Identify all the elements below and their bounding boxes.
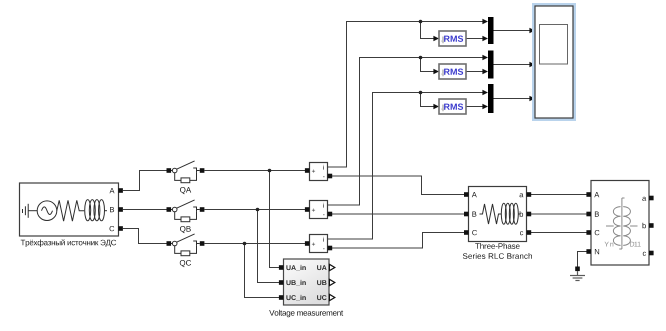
output chevron UC xyxy=(329,294,334,300)
output chevron UA xyxy=(329,264,334,270)
junction dots xyxy=(243,20,423,246)
winding config label D11 xyxy=(630,242,641,247)
breaker QB xyxy=(167,200,205,233)
pin label A (transformer) xyxy=(594,192,599,197)
current measurement I2 xyxy=(305,201,332,219)
pin label UC_in xyxy=(286,295,305,301)
pin label UC xyxy=(317,295,327,300)
mux M2 xyxy=(488,51,494,79)
wire branch line3 down to RMS3 input xyxy=(421,93,434,107)
label RMS1 xyxy=(444,36,463,42)
wire tap B down to UB_in xyxy=(258,210,279,283)
arrow line2 into mux M2 xyxy=(482,55,488,61)
arrow mux M1 into scope xyxy=(529,28,535,34)
pin label C (source) xyxy=(110,226,115,231)
pin label A (RLC) xyxy=(472,192,477,197)
pin mark + (I3) xyxy=(312,243,315,246)
arrow mux M2 into scope xyxy=(529,62,535,68)
wire source A to breaker QA xyxy=(123,171,167,191)
scope (selected, blue halo) xyxy=(532,3,576,121)
wire I1 i-output riser to top line 1 into mux M1 xyxy=(328,22,483,168)
pin label a (transformer) xyxy=(642,197,646,201)
pin label c (transformer) xyxy=(643,252,646,256)
pin label UA_in xyxy=(286,265,305,271)
source block Трёхфазный источник ЭДС xyxy=(20,183,119,236)
pin mark + (I2) xyxy=(312,209,315,212)
wire transformer N to ground xyxy=(578,252,587,267)
pin mark i (I2) xyxy=(322,203,325,208)
node tap A xyxy=(268,169,272,173)
wire branch line2 down to RMS2 input xyxy=(421,58,434,72)
designator label QA xyxy=(180,187,191,194)
output chevron UB xyxy=(329,279,334,285)
node line3-RMS3 branch xyxy=(419,91,423,95)
breaker QA xyxy=(167,161,205,194)
pin label c (RLC) xyxy=(520,231,523,235)
pin label N (transformer) xyxy=(595,249,599,254)
wire RLC c to transformer C xyxy=(531,232,586,234)
Voltage measurement subsystem xyxy=(279,259,335,305)
pin label UA xyxy=(317,265,327,270)
pin mark + (I1) xyxy=(312,170,315,173)
transformer icon: two windings and core xyxy=(606,198,638,249)
pin mark i (I3) xyxy=(322,237,325,242)
ground xyxy=(570,267,585,281)
node tap B xyxy=(256,208,260,212)
label Voltage measurement xyxy=(269,310,343,318)
arrow into RMS3 xyxy=(433,104,439,110)
wire mux M2 to scope input 2 xyxy=(494,64,530,66)
pin label UB xyxy=(317,280,326,285)
pin label A (source) xyxy=(110,188,115,193)
arrowheads xyxy=(433,19,535,110)
pin label UB_in xyxy=(286,280,305,286)
wire I3 minus to RLC port C xyxy=(332,233,464,249)
pin mark - (I1) xyxy=(323,176,325,179)
designator label QC xyxy=(180,260,191,267)
pin mark - (I3) xyxy=(323,248,325,251)
pin label B (transformer) xyxy=(595,212,599,217)
arrow RMS1 into mux M1 xyxy=(482,36,488,42)
label source block xyxy=(21,239,117,247)
wire I2 i-output riser to top line 2 into mux M2 xyxy=(328,58,483,206)
wire tap A down to UA_in xyxy=(270,171,279,268)
arrow into RMS2 xyxy=(433,69,439,75)
pin label B (RLC) xyxy=(472,212,476,217)
node line2-RMS2 branch xyxy=(419,56,423,60)
wire I3 i-output riser to top line 3 into mux M3 xyxy=(328,93,483,240)
pin label b (RLC) xyxy=(520,211,523,217)
RMS3 block xyxy=(439,99,466,114)
arrow line1 into mux M1 xyxy=(482,19,488,25)
wire phase C: QC to current meter I3 xyxy=(204,243,305,245)
wire tap C down to UC_in xyxy=(245,244,279,298)
transformer block D11 xyxy=(591,181,649,266)
label RMS3 xyxy=(444,104,463,110)
pin label a (RLC) xyxy=(520,193,524,197)
pin label C (transformer) xyxy=(595,230,600,235)
wire RMS2 output to mux M2 xyxy=(466,71,483,73)
source output port squares xyxy=(118,188,123,231)
wire source C to breaker QC xyxy=(123,229,167,244)
wire I1 minus to RLC port A xyxy=(332,176,464,195)
wire mux M1 to scope input 1 xyxy=(494,30,530,32)
arrow line3 into mux M3 xyxy=(482,90,488,96)
arrow mux M3 into scope xyxy=(529,96,535,102)
arrow RMS2 into mux M2 xyxy=(482,69,488,75)
wire I2 minus to RLC port B xyxy=(332,213,464,215)
wire RMS1 output to mux M1 xyxy=(466,38,483,40)
node tap C xyxy=(243,242,247,246)
arrow into RMS1 xyxy=(433,36,439,42)
transformer port squares xyxy=(586,192,653,255)
pin mark i (I1) xyxy=(322,165,325,170)
wire branch line1 down to RMS1 input xyxy=(421,22,434,39)
pin label b (transformer) xyxy=(643,223,646,229)
RMS2 block xyxy=(439,64,466,79)
wire RLC a to transformer A xyxy=(531,194,586,196)
breaker QC xyxy=(167,234,205,267)
RLC icon: resistor + inductor xyxy=(480,203,521,224)
pin label B (source) xyxy=(110,207,114,212)
current measurement I3 xyxy=(305,235,332,253)
label RMS2 xyxy=(444,69,463,75)
node line1-RMS1 branch xyxy=(419,20,423,24)
wire mux M3 to scope input 3 xyxy=(494,98,530,100)
pin label C (RLC) xyxy=(472,230,477,235)
wire source B to breaker QB xyxy=(123,209,167,211)
label Three-Phase Series RLC Branch xyxy=(475,243,519,249)
RLC port squares xyxy=(464,192,531,235)
wire RLC b to transformer B xyxy=(531,213,586,215)
wire phase A: QA to current meter I1 xyxy=(204,170,305,172)
RMS1 block xyxy=(439,31,466,46)
winding config label Yn xyxy=(605,242,614,247)
designator label QB xyxy=(180,226,191,233)
source icon: ground, AC source circle, resistor, inductor xyxy=(23,200,108,222)
Three-Phase Series RLC Branch block xyxy=(469,187,527,242)
wire RMS3 output to mux M3 xyxy=(466,106,483,108)
wire phase B: QB to current meter I2 xyxy=(204,209,305,211)
arrow RMS3 into mux M3 xyxy=(482,104,488,110)
mux M1 xyxy=(488,17,494,44)
mux M3 xyxy=(488,84,494,113)
pin mark - (I2) xyxy=(323,214,325,217)
current measurement I1 xyxy=(305,163,332,181)
